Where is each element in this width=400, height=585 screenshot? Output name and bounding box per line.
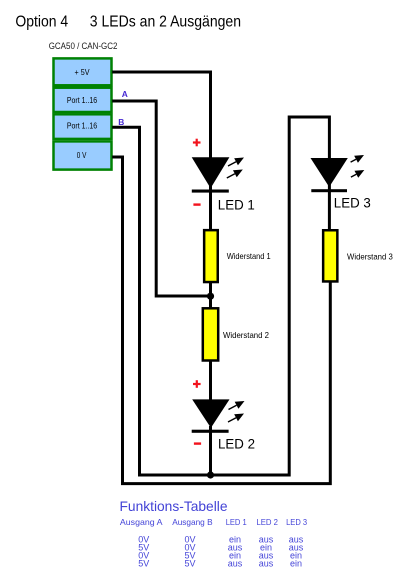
svg-text:LED 1: LED 1 [226, 517, 247, 527]
svg-text:aus: aus [228, 559, 243, 569]
svg-text:Port 1..16: Port 1..16 [67, 121, 98, 130]
junction node LED2-rail [207, 471, 214, 478]
svg-text:aus: aus [259, 559, 274, 569]
minus mark LED2 [194, 442, 201, 444]
wire LED1 cathode to R1 [209, 185, 212, 231]
svg-text:3 LEDs an 2 Ausgängen: 3 LEDs an 2 Ausgängen [90, 14, 241, 31]
table row 2 [138, 543, 304, 553]
svg-text:Ausgang A: Ausgang A [120, 517, 163, 527]
wire A to R1-R2 junction [112, 101, 208, 296]
svg-text:5V: 5V [138, 559, 149, 569]
svg-text:LED 3: LED 3 [286, 517, 307, 527]
plus mark LED2 [193, 380, 201, 388]
connector cell +5V [54, 58, 112, 85]
wire B to LED2 cathode rail and LED3 anode [112, 117, 329, 475]
LED D2 [192, 399, 230, 432]
svg-text:GCA50 / CAN-GC2: GCA50 / CAN-GC2 [49, 41, 118, 52]
LED D1 [192, 157, 230, 192]
svg-text:Option 4: Option 4 [15, 14, 68, 31]
wire 0V to outer rail and R3 bottom [112, 157, 330, 484]
resistor R3 Widerstand 3 [323, 230, 337, 281]
plus mark LED1 [193, 139, 201, 147]
wire LED2 cathode to inner rail [209, 426, 212, 475]
connector cell Port B [54, 114, 112, 139]
LED1 emission arrow 1 [228, 158, 244, 167]
LED D3 [311, 158, 348, 192]
table row 1 [138, 535, 304, 545]
wire LED3 cathode to R3 [328, 184, 331, 229]
svg-text:Widerstand 1: Widerstand 1 [227, 251, 271, 261]
LED1 emission arrow 2 [227, 170, 243, 179]
svg-text:Port 1..16: Port 1..16 [67, 96, 98, 105]
svg-text:Widerstand 2: Widerstand 2 [223, 330, 269, 340]
svg-text:LED 3: LED 3 [334, 195, 371, 211]
svg-text:LED 1: LED 1 [218, 196, 255, 212]
svg-text:LED 2: LED 2 [256, 517, 278, 527]
LED3 emission arrow 2 [351, 170, 364, 178]
svg-text:5V: 5V [184, 559, 195, 569]
wire R2 to LED2 anode [209, 360, 212, 401]
table row 4 [138, 559, 302, 569]
svg-text:Ausgang B: Ausgang B [172, 517, 213, 527]
minus mark LED1 [193, 203, 200, 205]
LED2 emission arrow 2 [228, 414, 244, 423]
svg-text:LED 2: LED 2 [218, 436, 255, 452]
svg-text:Widerstand 3: Widerstand 3 [347, 252, 393, 262]
svg-text:A: A [122, 89, 128, 99]
LED2 emission arrow 1 [229, 401, 245, 410]
svg-text:+ 5V: + 5V [75, 68, 91, 77]
svg-text:Funktions-Tabelle: Funktions-Tabelle [120, 498, 228, 514]
wire R1 to junction node [209, 282, 212, 296]
resistor R2 Widerstand 2 [203, 308, 218, 360]
table row 3 [138, 551, 302, 561]
LED3 emission arrow 1 [351, 155, 364, 163]
svg-text:0 V: 0 V [77, 151, 87, 160]
connector cell Port A [54, 88, 112, 112]
svg-text:ein: ein [290, 559, 302, 569]
wire junction node to R2 [209, 296, 212, 309]
svg-text:B: B [118, 117, 124, 127]
wire +5V to LED1 anode [112, 72, 210, 159]
resistor R1 Widerstand 1 [204, 230, 218, 282]
junction node R1-R2-A [207, 293, 214, 300]
connector cell 0V [54, 141, 112, 169]
